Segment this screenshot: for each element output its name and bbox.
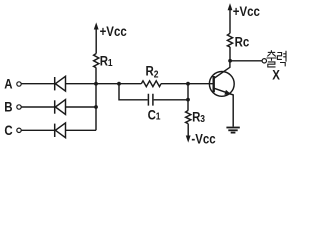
diode D2 cathode bar [54, 100, 56, 113]
resistor Rc [227, 33, 232, 47]
wire C1 to base node [154, 99, 188, 101]
svg-text:-Vcc: -Vcc [191, 132, 215, 147]
svg-text:1: 1 [156, 111, 161, 122]
wire diode D3 to bus [66, 129, 97, 131]
capacitor C1 [148, 94, 153, 106]
diode D1 triangle [55, 76, 65, 91]
input terminal C [17, 128, 21, 132]
ground [226, 127, 239, 129]
svg-text:X: X [272, 68, 280, 83]
junction row A to C1 branch [117, 82, 121, 86]
wire Rc to collector node [229, 47, 231, 61]
resistor R3 [186, 110, 191, 123]
wire diode D2 to bus [66, 106, 97, 108]
svg-text:C: C [4, 123, 12, 138]
output label (Korean "output") glyph chul [267, 50, 277, 67]
wire R2 to transistor base [161, 83, 213, 85]
svg-text:R: R [146, 64, 154, 79]
+Vcc arrow right [229, 9, 231, 34]
+Vcc arrow left [95, 28, 97, 54]
wire bus vertical [95, 68, 97, 131]
svg-text:2: 2 [154, 69, 159, 80]
resistor R1 [94, 54, 99, 68]
svg-text:C: C [148, 108, 156, 123]
svg-text:R: R [100, 54, 108, 69]
transistor Q1 collector [214, 62, 230, 79]
output terminal circle [262, 59, 266, 63]
junction bus row A [94, 82, 98, 86]
wire input B to diode D2 [21, 106, 54, 108]
junction base node C1 row [186, 98, 190, 102]
transistor Q1 circle [209, 72, 234, 97]
wire input C to diode D3 [21, 129, 54, 131]
transistor Q1 base bar [212, 76, 214, 92]
wire input A to diode D1 [21, 83, 54, 85]
svg-text:1: 1 [108, 57, 113, 68]
svg-text:A: A [4, 76, 12, 91]
output label (Korean "output") glyph ryeok [277, 51, 286, 67]
svg-text:+Vcc: +Vcc [233, 4, 260, 19]
diode D1 cathode bar [54, 77, 56, 90]
diode D2 triangle [55, 100, 65, 115]
wire C1 branch down and right [119, 84, 148, 100]
transistor Q1 emitter arrow [225, 90, 231, 94]
svg-text:Rc: Rc [235, 34, 250, 49]
diode D3 triangle [55, 123, 65, 138]
input terminal B [17, 105, 21, 109]
wire diode D1 to R2 [66, 83, 142, 85]
svg-text:B: B [4, 100, 12, 115]
svg-text:R: R [192, 110, 200, 125]
svg-text:+Vcc: +Vcc [100, 24, 127, 39]
wire collector node to output terminal [230, 60, 262, 62]
junction base node top [186, 82, 190, 86]
input terminal A [17, 82, 21, 86]
junction bus row B [94, 105, 98, 109]
transistor Q1 emitter [214, 88, 233, 126]
-Vcc arrow [186, 136, 190, 142]
wire R3 to -Vcc [187, 124, 189, 137]
wire base node vertical [187, 84, 189, 111]
diode D3 cathode bar [54, 124, 56, 137]
junction collector node [228, 59, 232, 63]
svg-text:3: 3 [200, 114, 205, 125]
resistor R2 [141, 81, 161, 87]
